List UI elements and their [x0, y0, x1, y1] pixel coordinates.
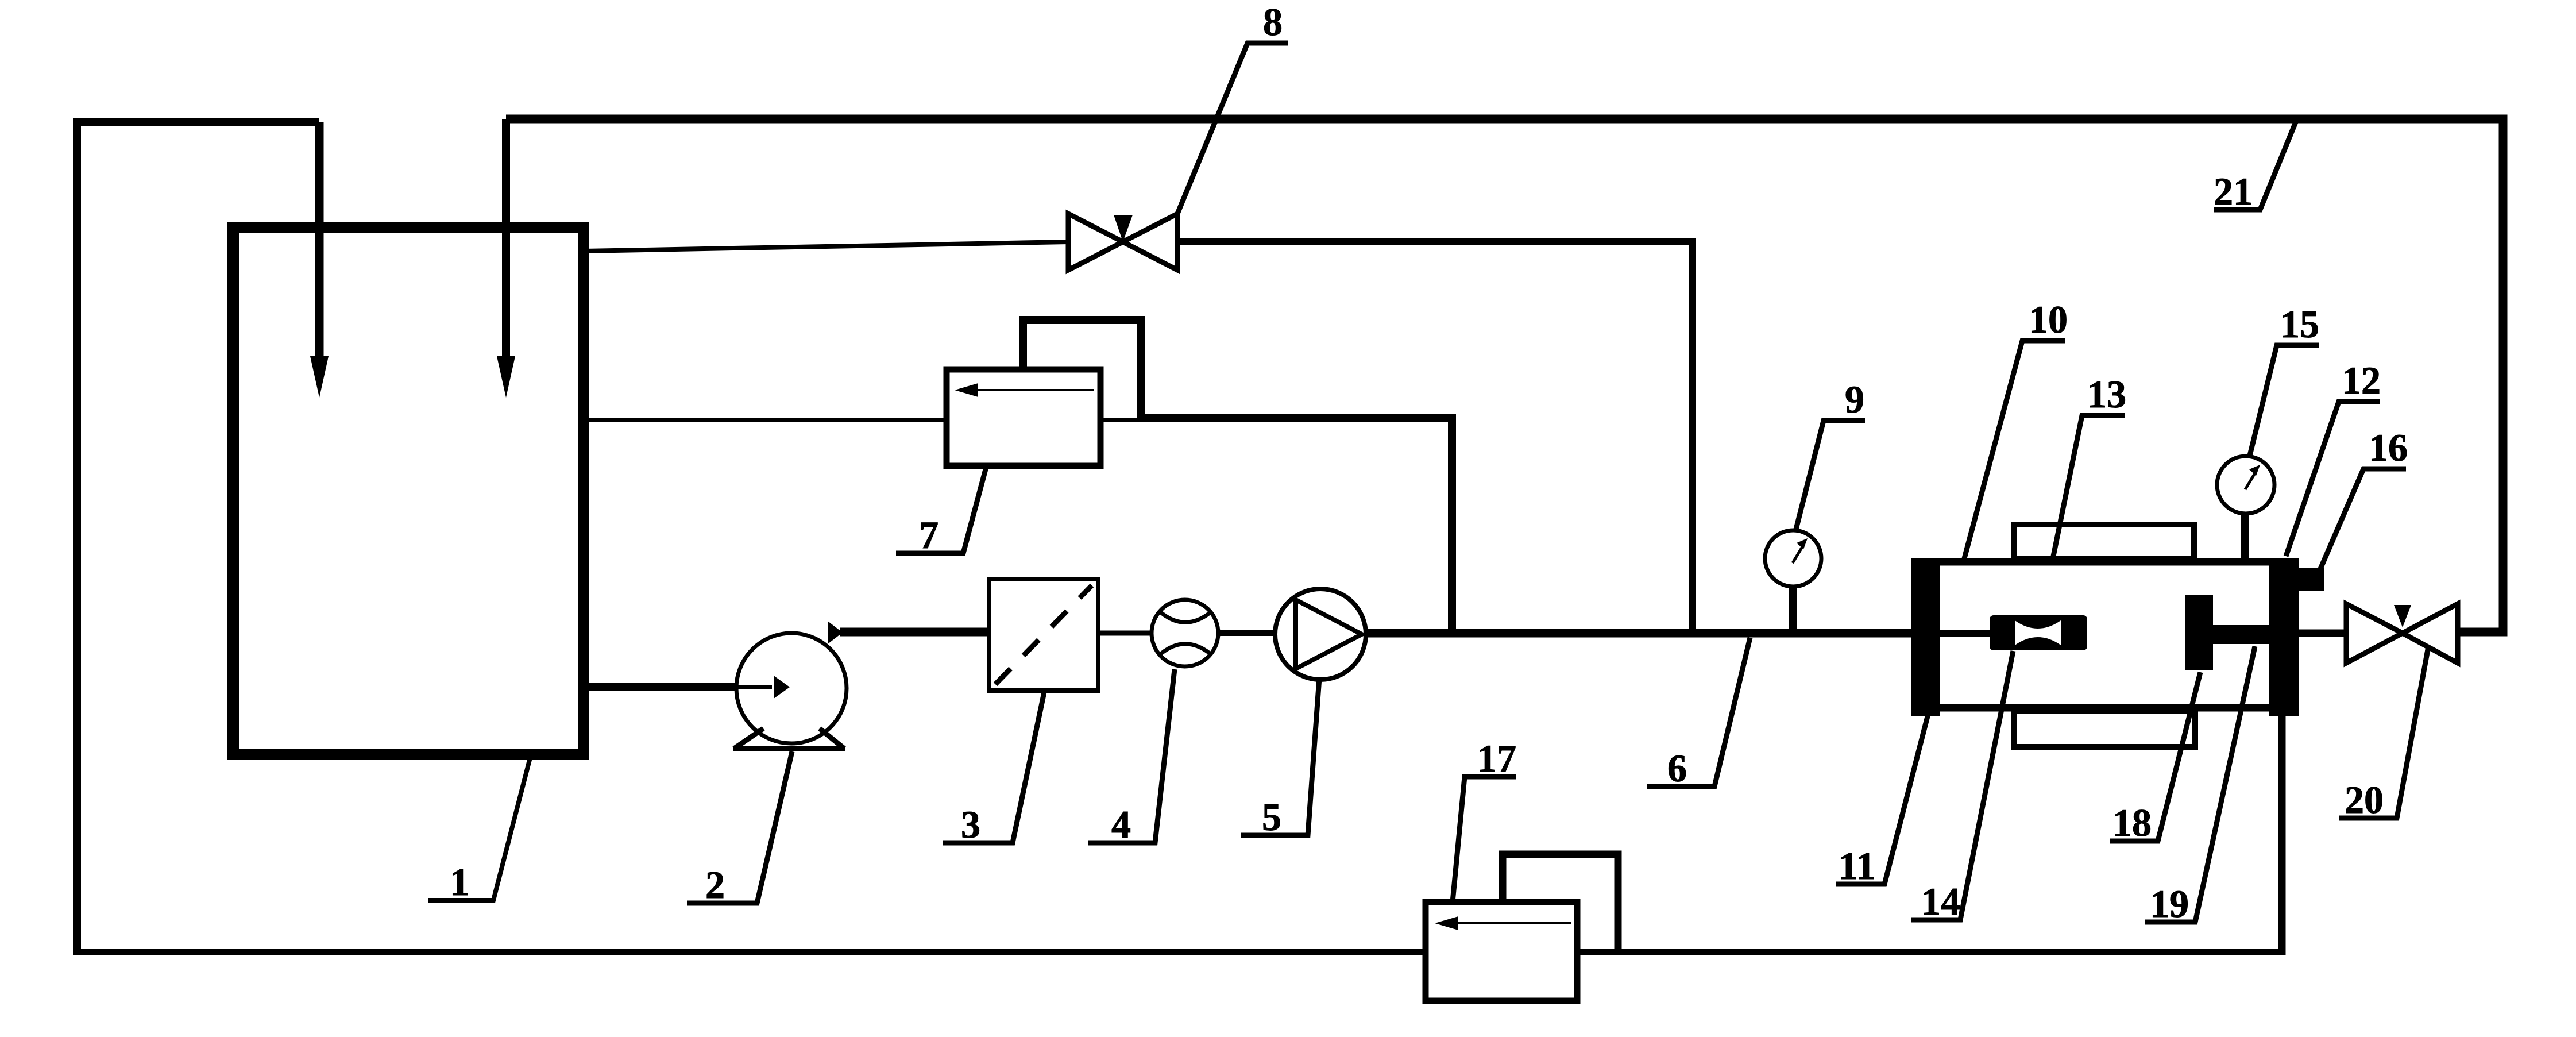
gauge 15	[2217, 456, 2274, 514]
svg-text:14: 14	[1921, 880, 1960, 923]
flow meter 4	[1152, 600, 1218, 666]
pump 2	[736, 633, 847, 743]
end cap 11 (left)	[1911, 558, 1940, 716]
label 19	[2145, 646, 2255, 922]
label 18	[2110, 672, 2200, 841]
wire cooler 7 to main pipe junction	[1137, 418, 1452, 633]
svg-text:20: 20	[2345, 778, 2384, 822]
label 14	[1911, 651, 2013, 920]
wire pump 2 to filter 3	[840, 628, 991, 637]
svg-text:16: 16	[2369, 426, 2408, 469]
label 12	[2286, 402, 2380, 556]
gauge 9	[1765, 530, 1821, 587]
filter 3	[989, 579, 1098, 691]
wire top line 21 with right-side drop to valve 20	[506, 119, 2503, 632]
svg-text:6: 6	[1667, 746, 1687, 790]
label 9	[1795, 421, 1865, 531]
svg-text:4: 4	[1111, 803, 1131, 846]
svg-text:18: 18	[2112, 801, 2152, 845]
wire feed line into tank from outer boundary	[315, 122, 324, 359]
filter 3 dashed diagonal	[995, 585, 1092, 684]
label 11	[1836, 714, 1928, 884]
piston 18	[2185, 595, 2213, 670]
wire bottom return (box 17 to riser under chamber)	[1576, 949, 2285, 955]
rod from cap 11 to specimen	[1940, 630, 1991, 637]
arrow into tank (left)	[310, 356, 329, 398]
svg-text:3: 3	[961, 803, 980, 846]
arrow into tank (right)	[497, 356, 515, 398]
label 2	[687, 751, 792, 903]
svg-text:19: 19	[2150, 882, 2189, 926]
label 8	[1177, 43, 1288, 214]
label 10	[1964, 341, 2065, 558]
label 6	[1647, 638, 1750, 787]
tank 1	[233, 228, 584, 754]
heater plate 13 (top)	[2014, 525, 2194, 558]
wire flow meter 4 to pump 5	[1218, 630, 1276, 636]
wire main pipe 6	[1364, 629, 1914, 638]
piston rod 19	[2213, 625, 2270, 644]
svg-text:9: 9	[1845, 377, 1864, 421]
svg-text:17: 17	[1477, 737, 1516, 780]
svg-text:8: 8	[1263, 0, 1283, 44]
end cap 12 (right)	[2269, 558, 2299, 716]
wire cooler 7 right stub	[1100, 418, 1141, 422]
label 16	[2320, 469, 2406, 569]
label 3	[943, 689, 1045, 843]
svg-text:10: 10	[2029, 298, 2068, 341]
chamber housing 10 top wall	[1940, 558, 2269, 566]
svg-text:13: 13	[2087, 372, 2126, 416]
wire valve 8 outlet to main pipe junction	[1177, 242, 1692, 633]
svg-text:5: 5	[1262, 795, 1281, 839]
svg-text:21: 21	[2214, 169, 2253, 213]
svg-text:1: 1	[450, 860, 469, 904]
svg-text:12: 12	[2342, 358, 2381, 402]
cooler 17	[1426, 902, 1577, 1001]
wire tank to cooler 7	[584, 418, 949, 422]
wire cooler 7 top loop	[1023, 320, 1141, 418]
svg-text:15: 15	[2280, 302, 2319, 346]
heater plate (bottom)	[2014, 711, 2195, 747]
wire tank to valve 8	[584, 242, 1068, 251]
specimen 14	[1990, 615, 2087, 650]
pump 5	[1275, 589, 1366, 680]
label 7	[896, 467, 986, 553]
arrow inside cooler 17	[1453, 922, 1571, 924]
wire valve 20 outlet	[2458, 629, 2504, 636]
arrow into pump 2	[737, 685, 772, 689]
chamber housing 10 bottom wall	[1940, 704, 2269, 712]
wire filter 3 to flow meter 4	[1098, 631, 1152, 636]
pump 2 base	[733, 728, 845, 749]
svg-text:11: 11	[1839, 844, 1875, 888]
wire outer boundary left (top-left horizontal, left vertical, bottom horizontal to box 17)	[77, 122, 319, 955]
wire chamber outlet to valve 20	[2299, 630, 2349, 637]
gauge 15 stem	[2241, 511, 2249, 558]
gauge 9 stem	[1789, 585, 1797, 632]
wire tank to pump 2	[584, 683, 742, 691]
label 4	[1088, 669, 1175, 843]
label 17	[1453, 777, 1516, 902]
label 1	[428, 753, 531, 900]
label 21	[2214, 121, 2296, 210]
valve 20	[2346, 604, 2458, 663]
valve 8	[1068, 214, 1177, 270]
svg-text:2: 2	[705, 863, 725, 907]
label 20	[2339, 646, 2428, 818]
label 13	[2053, 415, 2125, 556]
svg-text:7: 7	[919, 513, 939, 557]
wire cooler 17 top loop	[1503, 854, 1618, 952]
wire feed line into tank from top line	[502, 119, 510, 359]
arrow pump 2 outlet	[828, 621, 843, 644]
cooler 7	[947, 369, 1100, 466]
port 16	[2299, 568, 2324, 591]
arrow inside cooler 7	[974, 389, 1094, 391]
label 15	[2249, 345, 2319, 458]
label 5	[1241, 678, 1319, 835]
